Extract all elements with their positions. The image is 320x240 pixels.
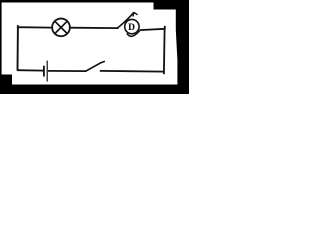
svg-text:D: D (128, 23, 135, 33)
scan border: right strip (176, 9, 189, 94)
device D circle tail stroke (127, 31, 140, 37)
battery B1 long plate (46, 61, 48, 82)
wire battery to switch (48, 70, 87, 72)
scan border: bottom strip (0, 85, 189, 95)
wire left of battery (17, 69, 43, 71)
lamp L1 cross (54, 21, 67, 34)
node corner tick top-right (164, 26, 166, 30)
arrow through device D (117, 12, 134, 28)
device D circle (125, 19, 139, 33)
switch S1 lever (85, 61, 105, 71)
wire lamp to open end (70, 27, 119, 29)
wire bottom right (100, 70, 165, 73)
wire D to right corner (140, 29, 165, 30)
scan border: left strip (0, 0, 2, 94)
wire top-left horizontal (17, 26, 52, 28)
battery B1 short plate (43, 66, 45, 77)
scan border: top strip (0, 0, 189, 3)
wire right vertical (163, 29, 166, 74)
wire left vertical (17, 27, 19, 70)
lamp L1 circle (52, 19, 70, 37)
scan border: bottom-left block (0, 75, 12, 87)
scan border: top-right block (154, 0, 190, 10)
node corner tick top-left (17, 25, 19, 28)
